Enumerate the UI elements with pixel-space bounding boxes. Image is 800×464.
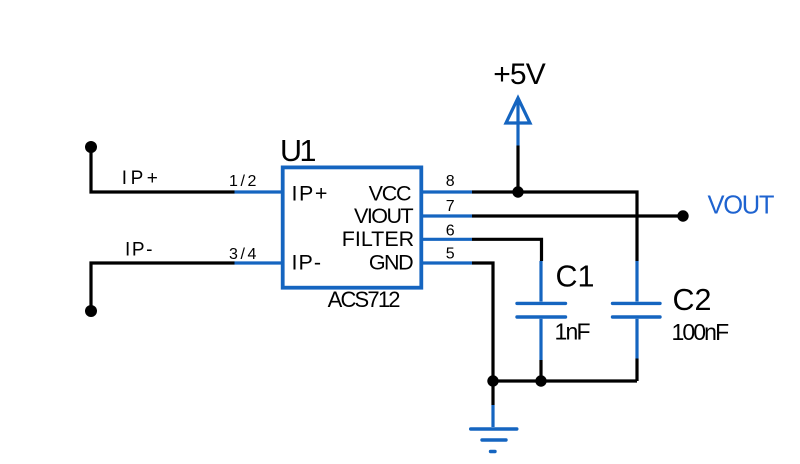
svg-text:100nF: 100nF (672, 319, 730, 345)
svg-text:C1: C1 (556, 260, 595, 294)
svg-text:VIOUT: VIOUT (354, 204, 414, 228)
svg-text:IP-: IP- (292, 251, 322, 275)
svg-text:5: 5 (446, 246, 455, 263)
svg-text:7: 7 (446, 198, 455, 215)
svg-text:ACS712: ACS712 (328, 287, 401, 312)
svg-text:IP+: IP+ (122, 168, 162, 189)
svg-text:+5V: +5V (493, 58, 546, 91)
svg-text:VOUT: VOUT (708, 192, 774, 220)
svg-text:8: 8 (446, 173, 455, 190)
svg-text:FILTER: FILTER (342, 227, 414, 251)
svg-text:GND: GND (369, 251, 413, 275)
svg-text:1/2: 1/2 (229, 173, 259, 190)
svg-text:1nF: 1nF (555, 318, 591, 344)
svg-text:VCC: VCC (369, 182, 411, 206)
svg-text:6: 6 (446, 222, 455, 239)
svg-text:3/4: 3/4 (229, 246, 259, 263)
svg-text:C2: C2 (673, 283, 712, 317)
svg-text:U1: U1 (280, 134, 316, 168)
svg-text:IP-: IP- (125, 239, 154, 260)
svg-text:IP+: IP+ (292, 182, 329, 206)
